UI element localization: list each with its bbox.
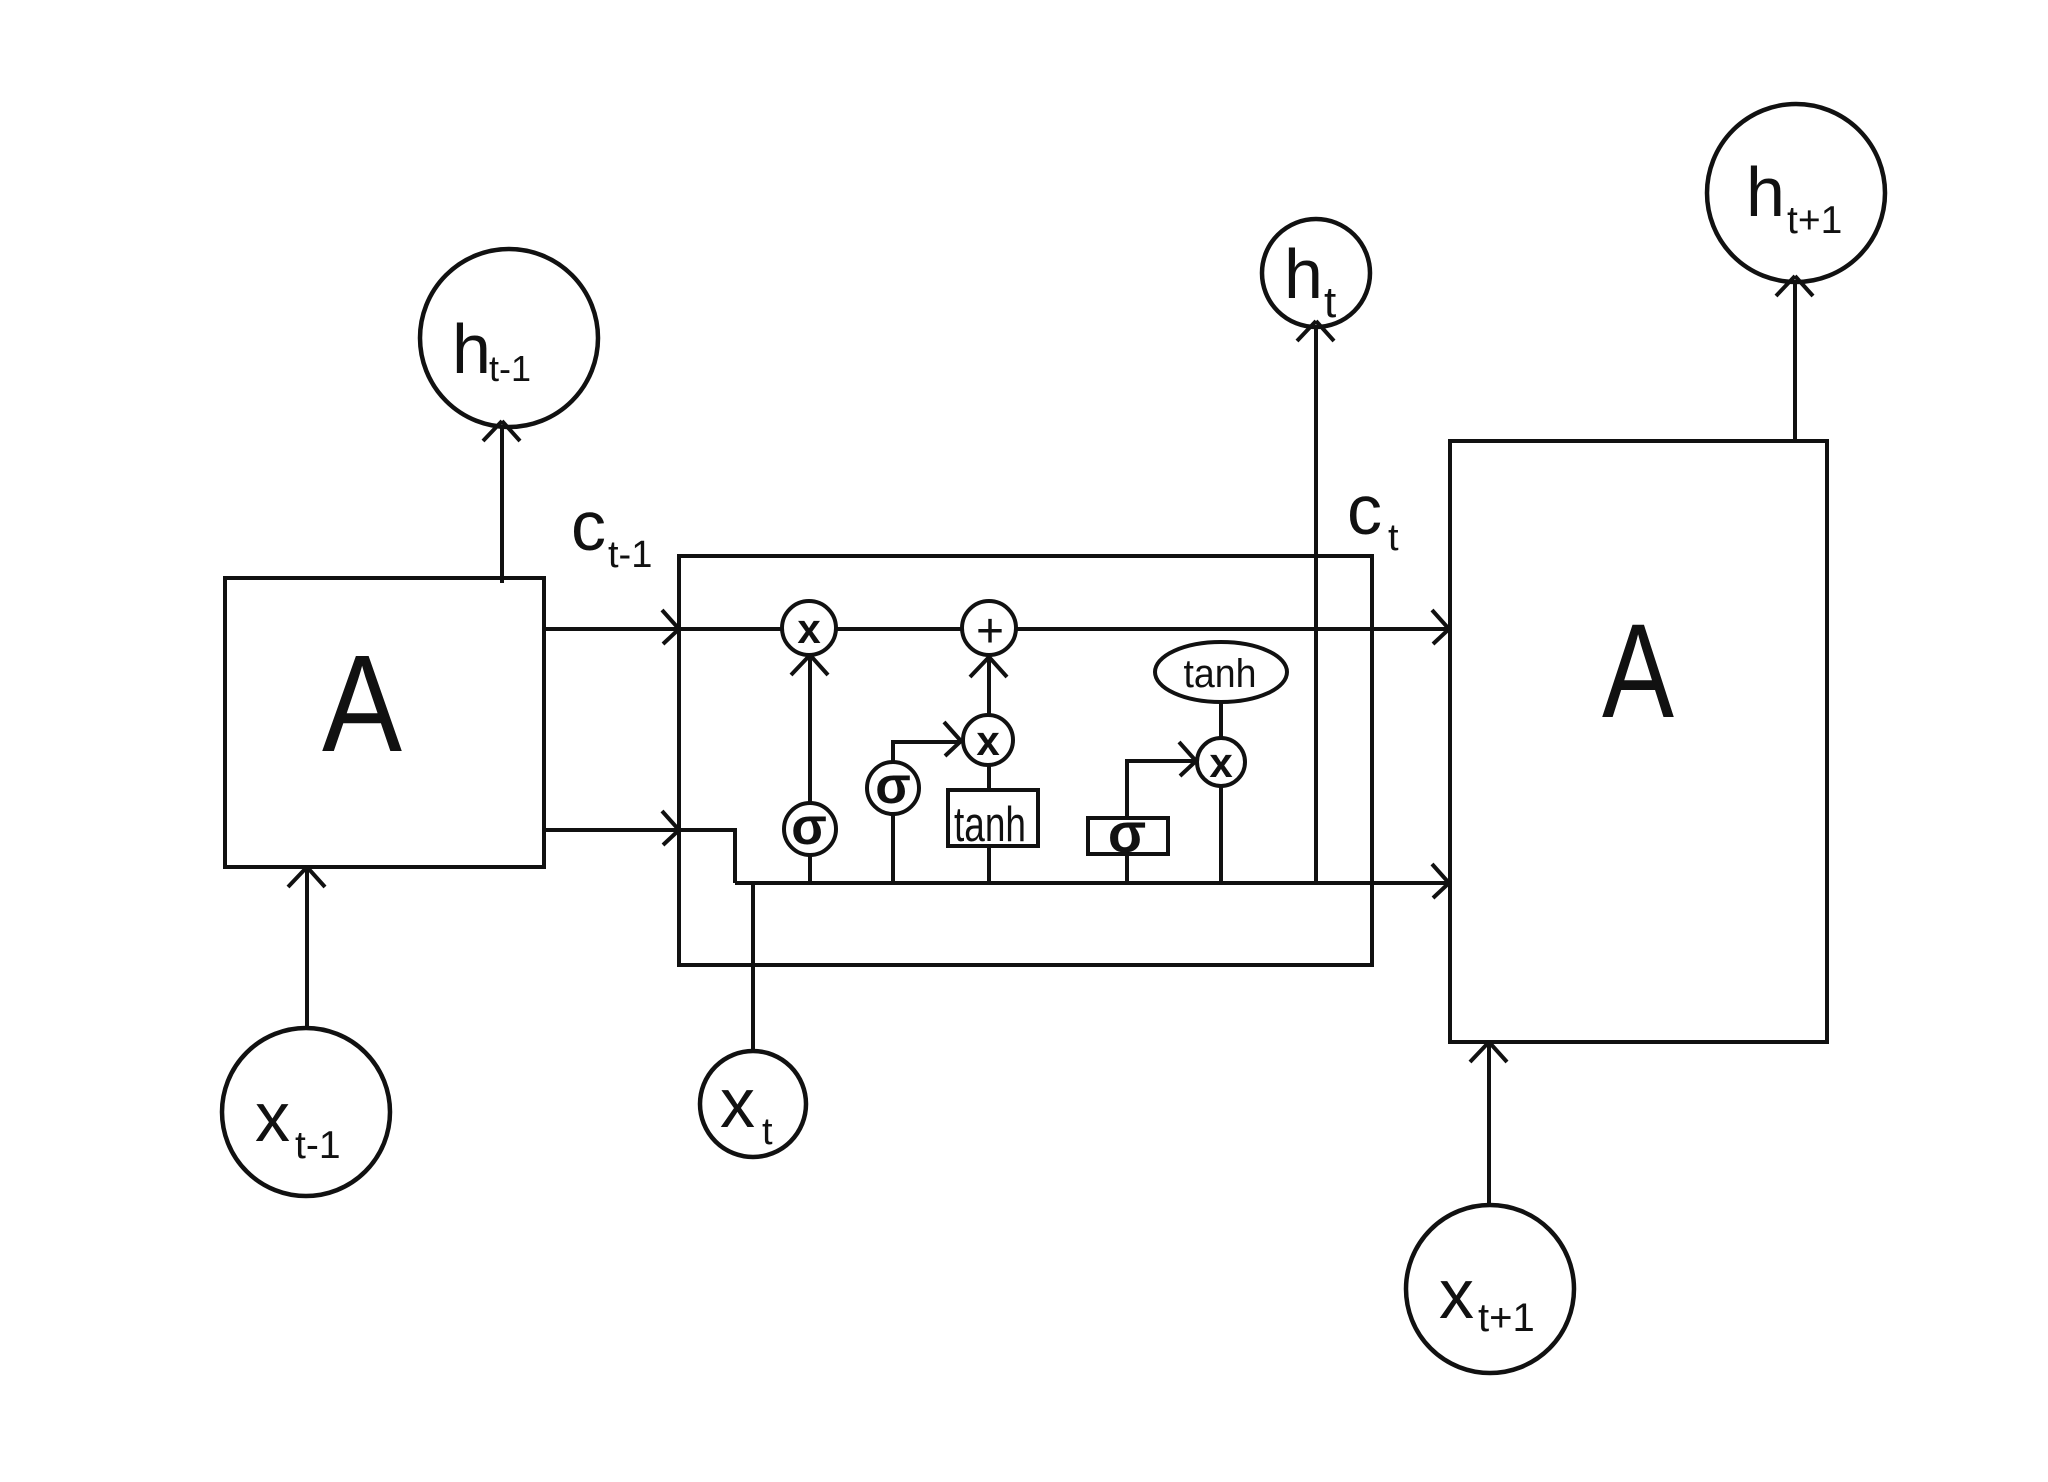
- wire: x_{t+1} up into right A: [1487, 1042, 1491, 1205]
- node h_t circle: [1262, 219, 1370, 327]
- arrowhead into center x from sigma2: [944, 722, 961, 756]
- wire: right A up to h_{t+1} circle: [1793, 282, 1797, 441]
- svg-text:σ: σ: [791, 798, 827, 856]
- wire: h_t output up from bus to h_t circle: [1314, 327, 1318, 883]
- svg-text:h: h: [1746, 153, 1785, 231]
- gate: output multiply x (right): [1197, 738, 1245, 786]
- svg-text:h: h: [1284, 235, 1323, 313]
- svg-text:x: x: [255, 1078, 290, 1156]
- node h_{t-1} circle: [420, 249, 598, 427]
- wire h_{t-1}: lower output of left A into cell, step down to input bus: [544, 830, 735, 883]
- wire: tanh ellipse down to right x down to bus: [1219, 702, 1223, 883]
- gate: tanh ellipse (output squash): [1155, 642, 1287, 702]
- svg-text:t: t: [1324, 278, 1336, 327]
- gate: input multiply x (center): [963, 715, 1013, 765]
- svg-text:t+1: t+1: [1787, 199, 1842, 242]
- svg-text:c: c: [571, 487, 606, 565]
- gate: add + (on c line): [962, 601, 1016, 655]
- svg-text:σ: σ: [875, 757, 911, 815]
- wire: left A up to h_{t-1} circle: [500, 427, 504, 583]
- block A (right, time t+1): [1450, 441, 1827, 1042]
- gate: sigma box (output): [1088, 818, 1168, 854]
- wire c_{t-1}: cell-state line from left A into cell, through x and + to right A: [544, 627, 1449, 631]
- wire: x_t up into the bus: [751, 883, 755, 1051]
- svg-text:t: t: [762, 1111, 773, 1153]
- wire: input gate sigma, elbow into center x: [893, 742, 961, 883]
- arrowhead into right A (bus): [1432, 864, 1449, 898]
- svg-text:+: +: [976, 605, 1004, 658]
- svg-text:h: h: [452, 310, 491, 388]
- arrowhead into left A from x_{t-1}: [288, 867, 325, 887]
- gate: sigma circle 1 (forget): [784, 803, 836, 855]
- arrowhead into + from center x: [970, 657, 1007, 677]
- wire: forget gate sigma up to x on c-line: [808, 655, 812, 883]
- arrowhead into cell (c line): [662, 610, 679, 644]
- svg-text:x: x: [1209, 739, 1233, 786]
- node h_{t+1} circle: [1707, 104, 1885, 282]
- gate: forget multiply x (on c line): [782, 601, 836, 655]
- wire: output gate sigma box, elbow into right x: [1127, 761, 1196, 883]
- wire: tanh box up through x to + on c-line: [987, 657, 991, 883]
- svg-text:A: A: [1602, 597, 1674, 746]
- arrowhead into right A from x_{t+1}: [1470, 1042, 1507, 1062]
- wire: input bus inside cell to right A: [735, 881, 1449, 885]
- svg-text:A: A: [322, 627, 402, 781]
- arrowhead into right A (c line): [1432, 610, 1449, 644]
- node x_t circle: [700, 1051, 806, 1157]
- arrowhead into right x from sigma box: [1179, 742, 1196, 776]
- wire: x_{t-1} up into left A: [305, 867, 309, 1028]
- arrowhead into h_{t+1}: [1776, 276, 1813, 296]
- svg-text:x: x: [976, 717, 1000, 764]
- svg-text:t-1: t-1: [295, 1124, 341, 1167]
- block A (left, time t-1): [225, 578, 544, 867]
- svg-text:t-1: t-1: [608, 534, 652, 576]
- svg-text:tanh: tanh: [954, 798, 1026, 852]
- gate: sigma circle 2 (input): [867, 762, 919, 814]
- svg-text:x: x: [1439, 1255, 1474, 1333]
- arrowhead into h_{t-1}: [483, 421, 520, 441]
- svg-text:σ: σ: [1108, 801, 1146, 864]
- svg-text:t+1: t+1: [1478, 1296, 1535, 1340]
- arrowhead into h_t: [1297, 321, 1334, 341]
- node x_{t+1} circle: [1406, 1205, 1574, 1373]
- svg-text:x: x: [720, 1064, 755, 1142]
- arrowhead into forget x from sigma1: [791, 655, 828, 675]
- svg-text:t: t: [1388, 517, 1399, 559]
- svg-text:t-1: t-1: [489, 348, 531, 389]
- LSTM cell box (time t): [679, 556, 1372, 965]
- arrowhead into cell (h line): [662, 811, 679, 845]
- gate: tanh box (candidate): [948, 790, 1038, 846]
- svg-text:c: c: [1347, 471, 1382, 549]
- svg-text:tanh: tanh: [1184, 652, 1257, 696]
- node x_{t-1} circle: [222, 1028, 390, 1196]
- svg-text:x: x: [797, 605, 821, 652]
